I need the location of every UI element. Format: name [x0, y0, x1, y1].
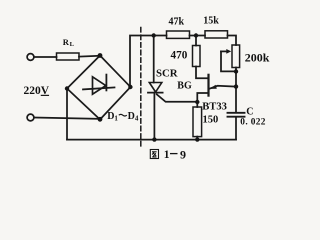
svg-text:D1: D1	[107, 111, 118, 123]
potentiometer wiper arrow	[221, 50, 227, 52]
svg-text:15k: 15k	[203, 15, 219, 26]
SCR triangle	[149, 83, 162, 93]
svg-text:9: 9	[180, 147, 186, 161]
svg-text:1: 1	[164, 149, 170, 161]
node bridge right vertex	[128, 85, 132, 89]
wire capacitor to bottom rail	[235, 118, 237, 140]
wire pot bottom down	[235, 68, 237, 113]
node bridge left vertex	[65, 86, 69, 90]
wire terminal to bridge bottom vertex	[34, 118, 100, 119]
resistor 470	[193, 46, 201, 67]
svg-text:47k: 47k	[169, 16, 185, 27]
resistor 47k	[167, 31, 190, 38]
bridge rectifier D1~D4 diamond	[67, 56, 131, 120]
resistor 150	[193, 107, 202, 137]
svg-text:200k: 200k	[245, 50, 270, 64]
wire 150 bottom to rail	[196, 137, 198, 140]
resistor 15k	[205, 31, 228, 38]
node top rail SCR tap	[152, 33, 156, 37]
wire 47k to 15k	[190, 35, 206, 37]
svg-text:150: 150	[203, 114, 219, 125]
UJT B2 wire from 470	[196, 67, 208, 79]
terminal bottom-left	[27, 114, 34, 121]
UJT emitter wire from pot node	[209, 86, 236, 89]
svg-text:220V: 220V	[24, 85, 50, 97]
capacitor C bottom plate	[228, 116, 245, 118]
svg-text:C: C	[246, 106, 253, 117]
capacitor C top plate	[228, 112, 245, 114]
wire 47k/15k node down to 470	[195, 36, 197, 46]
dashed separator line	[140, 28, 142, 147]
caption glyph 图	[150, 150, 158, 159]
bridge inner diode axis line	[83, 87, 115, 89]
svg-text:SCR: SCR	[156, 67, 178, 79]
node SCR cathode on rail	[152, 137, 156, 141]
svg-text:D4: D4	[128, 111, 139, 123]
UJT B1 wire to 150	[197, 93, 207, 107]
SCR anode wire from top rail	[153, 36, 155, 83]
wire RL to bridge top vertex	[79, 55, 100, 58]
caption dash	[170, 153, 178, 155]
svg-text:470: 470	[171, 50, 188, 62]
SCR cathode bar	[148, 92, 163, 94]
node bridge top vertex	[98, 53, 103, 58]
potentiometer 200k body	[232, 45, 240, 68]
resistor RL	[57, 53, 80, 60]
svg-text:RL: RL	[63, 37, 75, 48]
wire right vertex up to top rail	[130, 36, 167, 88]
bridge inner diode cathode bar	[105, 75, 107, 91]
node 47k-15k junction	[194, 33, 198, 37]
node 150 bottom on rail	[195, 137, 199, 141]
node emitter tap	[234, 84, 238, 88]
SCR cathode wire to bottom rail	[153, 93, 155, 140]
potentiometer wiper tail wire	[221, 51, 236, 71]
wire terminal to RL	[34, 56, 56, 58]
terminal top-left	[27, 54, 34, 61]
wire left vertex down to bottom rail	[66, 89, 68, 140]
svg-text:BT33: BT33	[202, 102, 227, 113]
node bridge bottom vertex	[98, 117, 103, 122]
UJT BT33 base bar	[207, 75, 209, 96]
SCR gate wire	[157, 94, 198, 101]
wire 15k to pot top	[228, 36, 237, 46]
svg-text:BG: BG	[177, 81, 192, 92]
node pot bottom	[234, 69, 238, 73]
svg-text:0. 022: 0. 022	[240, 118, 266, 128]
UJT emitter arrowhead	[210, 85, 217, 89]
bridge inner diode triangle	[93, 77, 106, 94]
node gate/B1/150 junction	[195, 100, 199, 104]
bottom rail wire	[67, 139, 236, 141]
